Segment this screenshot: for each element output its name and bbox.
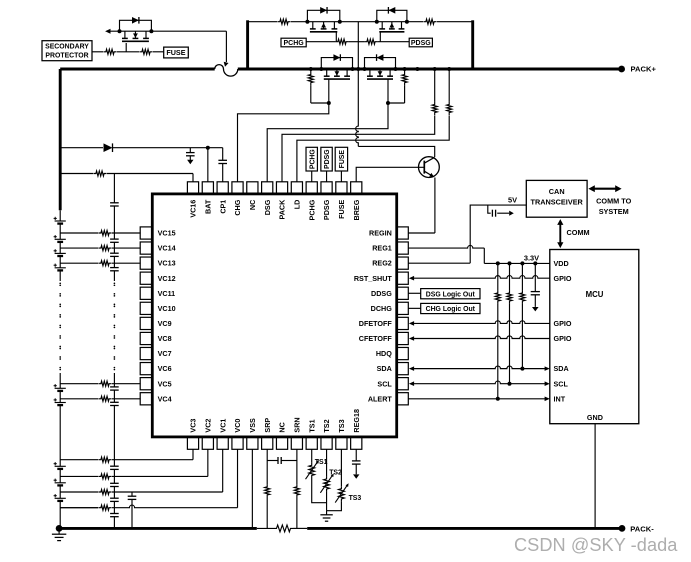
battery cell B5 bbox=[55, 387, 66, 389]
svg-text:5V: 5V bbox=[508, 196, 517, 205]
pin DDSG (right) bbox=[397, 287, 409, 299]
svg-text:PDSG: PDSG bbox=[322, 199, 331, 220]
battery cell B6 bbox=[55, 402, 66, 404]
wire CFETOFF from MCU GPIO (hops pull-ups) bbox=[413, 336, 550, 339]
resistor R PACK sense bbox=[434, 69, 436, 102]
svg-text:VDD: VDD bbox=[554, 259, 569, 268]
pin REG2 (right) bbox=[397, 257, 409, 269]
wire REG1 to 3.3V rail (hops 5V riser) bbox=[408, 245, 484, 248]
wire REG18 lead bbox=[355, 449, 357, 461]
wire FUSE label box to pin bbox=[340, 171, 342, 182]
resistor R VC13 bbox=[98, 261, 111, 266]
wire CHG gate lead bbox=[328, 79, 330, 103]
box SECONDARY PROTECTOR bbox=[42, 41, 92, 61]
pin CP1 (top) bbox=[217, 182, 228, 194]
svg-text:REG18: REG18 bbox=[352, 409, 361, 433]
node DSG pull-resistor tap bbox=[403, 67, 407, 71]
battery cell B1 bbox=[55, 220, 66, 222]
wire TS1 lead bbox=[311, 449, 313, 463]
wire CHG gate to CHG pin bbox=[238, 103, 329, 182]
node DSG gate bbox=[386, 101, 390, 105]
pin PDSG (top) bbox=[321, 182, 332, 194]
wire VC5 tap bbox=[60, 383, 98, 385]
svg-text:TS2: TS2 bbox=[329, 470, 342, 477]
wire PDSG label box to pin bbox=[326, 171, 328, 182]
wire SRN kelvin with resistor bbox=[296, 449, 298, 484]
pin VC16 (top) bbox=[187, 182, 198, 194]
ground main BAT- bbox=[58, 528, 60, 534]
svg-text:VC0: VC0 bbox=[233, 419, 242, 433]
wire VC16 drop to pin bbox=[192, 174, 194, 182]
resistor R VC1 bbox=[98, 489, 111, 494]
pin VC13 (left) bbox=[140, 257, 152, 269]
wire 5V cap to arrow bbox=[497, 212, 509, 214]
pin TS3 (bottom) bbox=[336, 437, 347, 449]
battery cell B2 bbox=[55, 238, 66, 240]
wire LD sense to LD pin bbox=[297, 116, 449, 182]
wire VSS to BAT- rail bbox=[251, 449, 253, 528]
terminal PACK- bbox=[619, 525, 626, 532]
svg-text:BREG: BREG bbox=[352, 199, 361, 220]
pin SCL (right) bbox=[397, 378, 409, 390]
svg-text:TRANSCEIVER: TRANSCEIVER bbox=[531, 198, 584, 207]
op-amp U3 MCU body bbox=[550, 250, 639, 424]
svg-text:PCHG: PCHG bbox=[283, 40, 304, 47]
svg-text:PDSG: PDSG bbox=[411, 40, 431, 47]
svg-text:TS3: TS3 bbox=[349, 495, 362, 502]
pin HDQ (right) bbox=[397, 347, 409, 359]
pin NC (top) bbox=[247, 182, 258, 194]
svg-text:DFETOFF: DFETOFF bbox=[359, 319, 393, 328]
box CHG Logic Out bbox=[408, 307, 420, 309]
transistor Q4 CHG FET with body diode bbox=[321, 58, 352, 69]
wire DFETOFF from MCU GPIO (hops pull-ups) bbox=[413, 321, 550, 324]
svg-text:NC: NC bbox=[278, 422, 287, 432]
node rail junction bbox=[415, 67, 419, 71]
chemical fuse element (wire hump) in PACK+ rail bbox=[215, 65, 238, 77]
box CAN transceiver U2 bbox=[526, 180, 587, 217]
capacitor C VC filter 5 bbox=[110, 386, 119, 388]
capacitor C VC filter 3 bbox=[110, 252, 119, 254]
svg-text:VC14: VC14 bbox=[158, 244, 176, 253]
resistor R sense (SRP/SRN shunt) bbox=[274, 525, 293, 532]
svg-text:PACK: PACK bbox=[278, 199, 287, 220]
svg-text:PROTECTOR: PROTECTOR bbox=[45, 53, 88, 60]
pin PACK (top) bbox=[276, 182, 287, 194]
wire emitter to REGIN bbox=[434, 178, 436, 234]
svg-text:FUSE: FUSE bbox=[339, 150, 346, 169]
svg-text:SYSTEM: SYSTEM bbox=[599, 207, 629, 216]
wire SRP kelvin with resistor bbox=[266, 449, 268, 484]
wire PACK sense to PACK pin bbox=[282, 116, 435, 182]
svg-text:SCL: SCL bbox=[377, 379, 392, 388]
svg-text:VC4: VC4 bbox=[158, 394, 172, 403]
wire thick riser right of predischarge circuit bbox=[471, 20, 474, 69]
wire battery stack vertical segments bbox=[59, 210, 61, 221]
capacitor C VC filter 2 bbox=[110, 238, 119, 240]
svg-text:COMM TO: COMM TO bbox=[596, 196, 631, 205]
svg-text:VC9: VC9 bbox=[158, 319, 172, 328]
wire thick riser left of precharge circuit bbox=[246, 20, 249, 69]
box PCHG net label (pin) bbox=[306, 147, 317, 171]
wire PDSG gate lead bbox=[379, 32, 381, 42]
pin VC2 (bottom) bbox=[202, 437, 213, 449]
pin BREG (top) bbox=[351, 182, 362, 194]
pin VC5 (left) bbox=[140, 378, 152, 390]
capacitor C CP1 charge pump bbox=[218, 159, 227, 161]
wire CP1 drop bbox=[222, 148, 224, 161]
svg-text:CP1: CP1 bbox=[218, 200, 227, 214]
svg-text:VC12: VC12 bbox=[158, 274, 176, 283]
svg-text:FUSE: FUSE bbox=[337, 199, 346, 218]
wire VC14 tap bbox=[60, 247, 98, 249]
resistor R VC2 bbox=[98, 474, 111, 479]
wire DSG gate to DSG pin bbox=[267, 103, 388, 182]
wire PACK+ rail left segment (thick) bbox=[60, 68, 215, 71]
pin DSG (top) bbox=[262, 182, 273, 194]
svg-text:PACK+: PACK+ bbox=[631, 64, 657, 73]
wire precharge top rail bbox=[248, 21, 277, 23]
svg-text:MCU: MCU bbox=[586, 290, 604, 299]
transistor Q6 NPN pre-regulator bbox=[419, 157, 440, 178]
pin PCHG (top) bbox=[306, 182, 317, 194]
wire BAT pin drop bbox=[207, 148, 209, 182]
wire REGIN pin to emitter bbox=[408, 232, 435, 234]
wire BAT+ vertical (thick) from PACK+ rail down to top cell bbox=[59, 69, 62, 210]
node BAT pin feed bbox=[206, 146, 210, 150]
svg-text:TS1: TS1 bbox=[315, 459, 328, 466]
svg-text:DCHG: DCHG bbox=[371, 304, 393, 313]
svg-text:INT: INT bbox=[554, 394, 566, 403]
svg-text:GPIO: GPIO bbox=[554, 334, 572, 343]
svg-text:VC16: VC16 bbox=[189, 200, 198, 218]
diode D1 BAT feed bbox=[104, 143, 113, 152]
transistor Q1 fuse-blow FET with body diode bbox=[120, 20, 152, 31]
svg-text:VC10: VC10 bbox=[158, 304, 176, 313]
svg-text:CAN: CAN bbox=[549, 187, 565, 196]
svg-text:TS2: TS2 bbox=[322, 419, 331, 432]
pin LD (top) bbox=[291, 182, 302, 194]
svg-text:SRP: SRP bbox=[263, 418, 272, 433]
pin VC14 (left) bbox=[140, 242, 152, 254]
wire 3.3V rail to MCU VDD bbox=[484, 262, 550, 264]
svg-text:PACK-: PACK- bbox=[630, 524, 654, 533]
pin VC0 (bottom) bbox=[232, 437, 243, 449]
node center between FETs bbox=[356, 67, 360, 71]
box DSG Logic Out bbox=[408, 292, 420, 294]
svg-text:SDA: SDA bbox=[377, 364, 392, 373]
pin VC3 (bottom) bbox=[187, 437, 198, 449]
svg-text:VC11: VC11 bbox=[158, 289, 176, 298]
pin RST_SHUT (right) bbox=[397, 272, 409, 284]
resistor R predischarge right bbox=[423, 19, 436, 24]
box FUSE net label (pin) bbox=[335, 147, 347, 171]
wire TS3 lead bbox=[340, 449, 342, 486]
svg-text:COMM: COMM bbox=[567, 228, 590, 237]
svg-text:REG1: REG1 bbox=[372, 244, 392, 253]
wire VC13 tap bbox=[60, 262, 98, 264]
pin VC10 (left) bbox=[140, 302, 152, 314]
svg-text:VC5: VC5 bbox=[158, 379, 172, 388]
svg-text:CHG Logic Out: CHG Logic Out bbox=[426, 306, 476, 313]
wire collector feed line bbox=[358, 146, 434, 157]
wire fuse-FET source line with arrow to BAT+ bbox=[105, 29, 110, 34]
pin VC11 (left) bbox=[140, 287, 152, 299]
wire RST_SHUT from MCU GPIO (hops pull-ups) bbox=[413, 276, 550, 279]
battery cell B4 bbox=[55, 267, 66, 269]
svg-text:DSG: DSG bbox=[263, 199, 272, 215]
capacitor C VC filter 1 bbox=[110, 202, 119, 204]
wire VC2 tap to bottom pin bbox=[60, 475, 98, 477]
box PCHG net label (upper) bbox=[281, 38, 306, 47]
svg-text:PCHG: PCHG bbox=[307, 199, 316, 220]
wire VC15 tap bbox=[60, 232, 98, 234]
svg-text:VC13: VC13 bbox=[158, 259, 176, 268]
box PDSG net label (pin) bbox=[321, 147, 332, 171]
capacitor C VC filter 9 bbox=[110, 497, 119, 499]
pin REGIN (right) bbox=[397, 227, 409, 239]
box PDSG net label (upper) bbox=[409, 38, 432, 47]
node DSG FET terminals bbox=[363, 67, 367, 71]
node CHG gate bbox=[327, 101, 331, 105]
svg-text:CFETOFF: CFETOFF bbox=[359, 334, 393, 343]
svg-text:BAT: BAT bbox=[203, 199, 212, 214]
op-amp U1 battery monitor IC body bbox=[152, 194, 396, 437]
svg-text:VC7: VC7 bbox=[158, 349, 172, 358]
svg-text:3.3V: 3.3V bbox=[524, 253, 539, 262]
resistor R VC14 bbox=[98, 246, 111, 251]
wire ALERT to MCU INT bbox=[408, 398, 545, 400]
svg-text:PDSG: PDSG bbox=[324, 149, 331, 169]
wire 5V decoupling branch bbox=[488, 205, 491, 213]
resistor R gate to FUSE bbox=[139, 49, 152, 54]
pin VC12 (left) bbox=[140, 272, 152, 284]
wire TS3 to common bbox=[327, 501, 342, 510]
pin CFETOFF (right) bbox=[397, 332, 409, 344]
svg-text:SRN: SRN bbox=[292, 417, 301, 432]
node CHG pull-resistor tap bbox=[309, 67, 313, 71]
pin REG1 (right) bbox=[397, 242, 409, 254]
battery cell B9 bbox=[55, 497, 66, 499]
node fuse-FET source bbox=[118, 29, 122, 33]
resistor R VC16 bbox=[93, 171, 106, 176]
svg-text:VC8: VC8 bbox=[158, 334, 172, 343]
pin CHG (top) bbox=[232, 182, 243, 194]
pin VC6 (left) bbox=[140, 363, 152, 375]
pin NC (bottom) bbox=[276, 437, 287, 449]
capacitor C VC filter 8 bbox=[110, 482, 119, 484]
battery stack continuation dots (left column) bbox=[59, 282, 61, 284]
svg-text:SDA: SDA bbox=[554, 364, 569, 373]
capacitor C SRP-SRN filter bbox=[267, 460, 278, 462]
svg-text:VC3: VC3 bbox=[189, 419, 198, 433]
wire MCU GND to PACK- rail bbox=[594, 424, 596, 529]
wire fuse-FET gate lead bbox=[125, 43, 127, 52]
svg-text:VC15: VC15 bbox=[158, 229, 176, 238]
pin SDA (right) bbox=[397, 363, 409, 375]
wire TS2 to common bbox=[326, 492, 328, 511]
ground thermistor common bbox=[326, 511, 328, 515]
battery cell B7 bbox=[55, 465, 66, 467]
wire center node vertical (precharge sources / FET midpoint to BREG transistor collector) bbox=[357, 22, 359, 69]
wire COMM TO SYSTEM double arrow bbox=[594, 188, 617, 190]
node PDSG FET terminals bbox=[375, 20, 379, 24]
wire fuse-FET drain drop with arrow onto fuse element bbox=[225, 31, 227, 62]
svg-text:DDSG: DDSG bbox=[371, 289, 392, 298]
pin VC1 (bottom) bbox=[217, 437, 228, 449]
svg-text:GPIO: GPIO bbox=[554, 274, 572, 283]
battery stack continuation dots (capacitor column) bbox=[114, 282, 116, 284]
capacitor C VC filter 7 bbox=[110, 465, 119, 467]
svg-text:REG2: REG2 bbox=[372, 259, 392, 268]
wire VC16 feed line from BAT+ via resistor bbox=[60, 173, 93, 175]
svg-text:NC: NC bbox=[248, 200, 257, 210]
pin DCHG (right) bbox=[397, 302, 409, 314]
thermistor TS1 bbox=[309, 463, 315, 478]
thermistor TS2 bbox=[324, 476, 330, 491]
svg-text:FUSE: FUSE bbox=[166, 48, 185, 57]
resistor R VC15 bbox=[98, 230, 111, 235]
pin VC15 (left) bbox=[140, 227, 152, 239]
svg-text:SECONDARY: SECONDARY bbox=[45, 44, 89, 51]
pin DFETOFF (right) bbox=[397, 317, 409, 329]
capacitor C VC1 to BAT- with wire bbox=[131, 492, 133, 496]
svg-text:TS1: TS1 bbox=[307, 419, 316, 432]
wire COMM double arrow CAN to MCU bbox=[559, 224, 561, 244]
pin VC7 (left) bbox=[140, 347, 152, 359]
pin REG18 (bottom) bbox=[351, 437, 362, 449]
wire BAT- rail left (thick) bbox=[59, 527, 257, 530]
wire VC filter capacitor column bbox=[113, 174, 115, 203]
svg-text:VC2: VC2 bbox=[203, 419, 212, 433]
node LD sense resistor tap bbox=[447, 67, 451, 71]
pin VC8 (left) bbox=[140, 332, 152, 344]
resistor R VC5 bbox=[98, 381, 111, 386]
capacitor C 5V decoupling bbox=[491, 210, 493, 217]
resistor R VC4 bbox=[98, 396, 111, 401]
pin VC9 (left) bbox=[140, 317, 152, 329]
svg-text:REGIN: REGIN bbox=[369, 229, 392, 238]
node BAT- junction bbox=[56, 525, 63, 532]
svg-text:SCL: SCL bbox=[554, 379, 569, 388]
svg-text:CSDN @SKY -dada: CSDN @SKY -dada bbox=[514, 535, 678, 555]
node PCHG FET terminals bbox=[305, 20, 309, 24]
resistor R PCHG gate-source bbox=[335, 39, 348, 44]
resistor R PDSG gate-source bbox=[364, 39, 377, 44]
capacitor C VC filter 4 bbox=[110, 267, 119, 269]
node CHG FET terminals bbox=[319, 67, 323, 71]
wire VC4 tap bbox=[60, 398, 98, 400]
wire PACK- rail (thick) bbox=[307, 527, 622, 530]
svg-text:GND: GND bbox=[587, 413, 603, 422]
pin FUSE (top) bbox=[336, 182, 347, 194]
svg-text:HDQ: HDQ bbox=[376, 349, 392, 358]
wire PACK+ rail right segment (thick) bbox=[238, 68, 622, 71]
wire 5V riser and feed to CAN transceiver bbox=[470, 205, 526, 263]
resistor R CHG gate pull-up bbox=[310, 69, 312, 72]
wire DSG gate node to resistor bbox=[388, 102, 405, 104]
svg-text:TS3: TS3 bbox=[337, 419, 346, 432]
wire BAT/CP1 feed line with diode from BAT+ bbox=[60, 147, 103, 149]
resistor R DSG gate pull-up bbox=[404, 69, 406, 72]
svg-text:PCHG: PCHG bbox=[309, 149, 316, 169]
svg-text:DSG Logic Out: DSG Logic Out bbox=[426, 291, 476, 298]
capacitor C VC filter 6 bbox=[110, 401, 119, 403]
wire CHG gate node to resistor bbox=[311, 102, 329, 104]
resistor R VC3 bbox=[98, 457, 111, 462]
svg-text:GPIO: GPIO bbox=[554, 319, 572, 328]
resistor R VC0 bbox=[98, 505, 111, 510]
wire PCHG gate lead bbox=[335, 32, 337, 42]
wire REG2 to 5V riser bbox=[408, 262, 470, 264]
wire VC1 tap to bottom pin bbox=[60, 491, 98, 493]
wire SDA bidirectional bbox=[413, 366, 546, 369]
wire secondary-protector gate line bbox=[92, 51, 103, 53]
svg-text:VC1: VC1 bbox=[218, 419, 227, 433]
pin SRP (bottom) bbox=[262, 437, 273, 449]
capacitor C VC filter 10 bbox=[110, 513, 119, 515]
capacitor C BAT filter with ground arrow bbox=[189, 148, 191, 153]
resistor R pull-up ALERT line bbox=[497, 263, 499, 290]
svg-text:VC6: VC6 bbox=[158, 364, 172, 373]
battery cell B3 bbox=[55, 252, 66, 254]
capacitor C 3.3V decoupling with ground arrow bbox=[534, 263, 536, 291]
transistor Q2 PCHG FET with body diode bbox=[307, 10, 339, 21]
thermistor TS3 bbox=[339, 486, 345, 501]
svg-text:RST_SHUT: RST_SHUT bbox=[354, 274, 393, 283]
battery cell B8 bbox=[55, 482, 66, 484]
wire TS2 lead bbox=[326, 449, 328, 476]
pin ALERT (right) bbox=[397, 393, 409, 405]
box FUSE net label bbox=[164, 47, 189, 58]
svg-text:ALERT: ALERT bbox=[368, 394, 393, 403]
terminal PACK+ bbox=[618, 66, 625, 73]
node fuse-FET drain bbox=[149, 29, 153, 33]
wire DSG gate lead bbox=[387, 79, 389, 103]
resistor R precharge left bbox=[277, 19, 290, 24]
svg-text:LD: LD bbox=[292, 200, 301, 210]
resistor R protector gate bbox=[103, 49, 116, 54]
wire PCHG/PDSG gate line with pull resistors to center node bbox=[306, 41, 335, 43]
capacitor C REG18 with ground arrow bbox=[352, 460, 361, 462]
wire VC3 tap to bottom pin bbox=[60, 459, 98, 461]
node PACK sense resistor tap bbox=[433, 67, 437, 71]
wire TS1 to common bbox=[312, 478, 327, 503]
pin TS1 (bottom) bbox=[306, 437, 317, 449]
node pull-up taps on 3.3V rail bbox=[496, 261, 500, 265]
resistor R LD sense bbox=[448, 69, 450, 102]
transistor Q5 DSG FET with body diode bbox=[365, 58, 396, 69]
pin TS2 (bottom) bbox=[321, 437, 332, 449]
svg-text:VSS: VSS bbox=[248, 418, 257, 433]
pin VC4 (left) bbox=[140, 393, 152, 405]
wire sense resistor leads bbox=[257, 527, 274, 529]
transistor Q3 PDSG FET with body diode bbox=[377, 10, 407, 21]
pin SRN (bottom) bbox=[291, 437, 302, 449]
wire SCL bidirectional bbox=[413, 381, 546, 384]
svg-text:CHG: CHG bbox=[233, 199, 242, 215]
resistor R pull-up SDA line bbox=[521, 263, 523, 290]
pin BAT (top) bbox=[202, 182, 213, 194]
wire VC0 tap to bottom pin bbox=[60, 507, 98, 509]
resistor R pull-up SCL line bbox=[509, 263, 511, 290]
wire PCHG label box to pin bbox=[311, 171, 313, 182]
pin VSS (bottom) bbox=[247, 437, 258, 449]
wire BREG pin to base bbox=[356, 167, 424, 182]
